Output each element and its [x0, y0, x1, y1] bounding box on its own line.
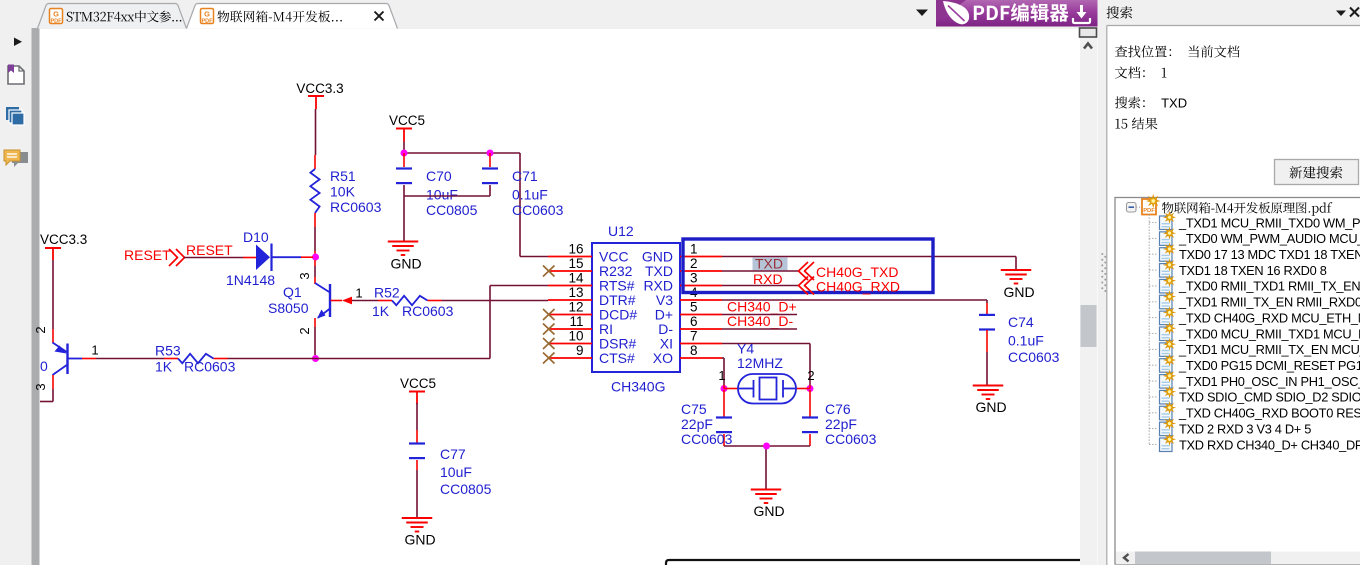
tree result 8 — [1149, 324, 1360, 342]
svg-text:TXD SDIO_CMD SDIO_D2 SDIO_: TXD SDIO_CMD SDIO_D2 SDIO_ — [1179, 390, 1360, 405]
svg-text:GND: GND — [390, 256, 421, 272]
tree connector line — [1148, 215, 1150, 445]
tabbar dropdown arrow — [916, 10, 928, 17]
wire RESET to D10 — [184, 257, 256, 259]
svg-text:R52: R52 — [374, 285, 400, 301]
wire VCC3.3 left to Q5 emitter — [33, 260, 53, 343]
svg-text:_TXD1 RMII_TX_EN RMII_RXD0: _TXD1 RMII_TX_EN RMII_RXD0 — [1178, 295, 1360, 310]
net label CH340_D- — [727, 313, 793, 329]
svg-text:VCC5: VCC5 — [400, 376, 436, 391]
port CH40G_TXD — [799, 262, 899, 280]
tab STM32F4xx (inactive) — [38, 4, 187, 29]
svg-text:0: 0 — [40, 358, 48, 374]
tree root item — [1127, 196, 1333, 216]
net label CH340_D+ — [727, 299, 797, 315]
svg-text:PDF: PDF — [202, 19, 214, 25]
tree result 9 — [1149, 340, 1360, 358]
svg-text:_TXD1 PH0_OSC_IN PH1_OSC_C: _TXD1 PH0_OSC_IN PH1_OSC_C — [1178, 374, 1360, 389]
node junction D10/R51/Q1 — [312, 254, 319, 261]
svg-text:1: 1 — [91, 343, 98, 358]
svg-text:1N4148: 1N4148 — [226, 272, 275, 288]
capacitor C70 10uF — [396, 153, 478, 218]
svg-text:8: 8 — [690, 343, 698, 358]
main vertical scrollbar — [1080, 28, 1097, 347]
tree result 1 — [1149, 213, 1360, 231]
tree result 4 — [1149, 260, 1326, 278]
svg-text:G: G — [53, 10, 59, 19]
svg-text:1K: 1K — [372, 303, 390, 319]
tab 物联网箱-M4开发板 (active) — [187, 4, 398, 29]
svg-text:RC0603: RC0603 — [402, 303, 454, 319]
wire U12 GND to ground symbol — [722, 257, 1016, 264]
ground under C74 — [973, 378, 1007, 415]
svg-text:_TXD CH40G_RXD MCU_ETH_MD: _TXD CH40G_RXD MCU_ETH_MD — [1178, 310, 1360, 325]
svg-text:1: 1 — [355, 286, 362, 301]
tree result 11 — [1149, 371, 1360, 389]
results tree box — [1115, 198, 1360, 565]
power VCC5 top — [389, 113, 425, 142]
svg-text:3: 3 — [297, 272, 312, 279]
svg-text:CH340_D-: CH340_D- — [727, 313, 793, 329]
svg-text:C71: C71 — [512, 168, 538, 184]
pin 1 U12-GND — [642, 242, 722, 265]
sidebar expand arrow — [14, 38, 22, 47]
panel splitter dots — [1101, 253, 1106, 292]
svg-text:10uF: 10uF — [426, 187, 458, 203]
svg-text:22pF: 22pF — [825, 416, 857, 432]
ground right of box — [1001, 263, 1035, 300]
PDF editor banner — [936, 0, 1098, 27]
svg-text:2: 2 — [297, 327, 312, 334]
svg-text:7: 7 — [690, 329, 698, 344]
svg-text:C75: C75 — [681, 401, 707, 417]
svg-text:TXD: TXD — [1161, 96, 1187, 111]
resistor R51 — [310, 155, 381, 227]
wire U12 V3 to C74 — [722, 300, 987, 303]
svg-text:2: 2 — [690, 256, 698, 271]
svg-text:10: 10 — [568, 329, 583, 344]
svg-text:R51: R51 — [330, 168, 356, 184]
svg-text:0.1uF: 0.1uF — [512, 187, 548, 203]
svg-text:TXD: TXD — [755, 256, 783, 272]
svg-text:G: G — [204, 10, 210, 19]
svg-text:CH40G_RXD: CH40G_RXD — [816, 279, 900, 295]
pin 4 U12-V3 — [656, 285, 722, 308]
wire U12 XI to crystal pin2 — [722, 344, 810, 386]
wire crystal caps to GND — [724, 446, 810, 481]
svg-text:22pF: 22pF — [681, 416, 713, 432]
title block border — [666, 560, 1080, 565]
svg-text:_TXD0 PG15 DCMI_RESET PG14: _TXD0 PG15 DCMI_RESET PG14 — [1178, 358, 1360, 373]
no-connect mark — [543, 266, 555, 277]
pin 14 U12-RTS# — [548, 271, 635, 294]
new search button — [1275, 160, 1359, 185]
tree horizontal scrollbar — [1116, 552, 1360, 565]
tree result 5 — [1149, 276, 1360, 294]
search panel header — [1107, 6, 1359, 18]
svg-text:GND: GND — [753, 503, 784, 519]
svg-text:RESET: RESET — [186, 242, 233, 258]
sidebar comments icon — [4, 150, 28, 167]
transistor Q1 S8050 — [268, 283, 363, 319]
pin 9 U12-CTS# — [548, 343, 635, 366]
pin 11 U12-RI — [548, 314, 613, 337]
svg-text:VCC3.3: VCC3.3 — [40, 232, 87, 247]
svg-text:10K: 10K — [330, 184, 356, 200]
svg-text:CC0603: CC0603 — [512, 202, 564, 218]
search info text — [1115, 45, 1240, 129]
tree result 12 — [1149, 387, 1360, 405]
node junction Q1/R53 net — [312, 355, 319, 362]
capacitor C74 0.1uF — [979, 303, 1060, 378]
capacitor C77 10uF — [409, 444, 492, 511]
pin 13 U12-DTR# — [548, 285, 636, 308]
svg-text:1: 1 — [690, 242, 698, 257]
svg-text:10uF: 10uF — [440, 464, 472, 480]
pin 16 U12-VCC — [548, 242, 629, 265]
pin 6 U12-D- — [658, 314, 722, 337]
svg-text:_TXD0 RMII_TXD1 RMII_TX_EN: _TXD0 RMII_TXD1 RMII_TX_EN — [1178, 279, 1360, 294]
wire VCC5 node — [404, 142, 548, 257]
pin 3 U12-RXD — [643, 271, 722, 294]
svg-text:11: 11 — [569, 314, 583, 329]
svg-text:CC0805: CC0805 — [440, 481, 492, 497]
svg-text:D10: D10 — [243, 229, 269, 245]
svg-text:C70: C70 — [426, 168, 452, 184]
node junction caps GND — [763, 443, 770, 450]
capacitor C75 22pF — [681, 390, 733, 447]
wire R53 net to U12 RTS# — [96, 286, 548, 359]
no-connect mark — [543, 338, 555, 349]
wire U12 D+ — [722, 314, 797, 316]
wire Q5 collector down — [33, 375, 53, 402]
wire U12 D- — [722, 328, 797, 330]
pin 5 U12-D+ — [655, 300, 722, 323]
svg-text:PDF: PDF — [51, 19, 63, 25]
svg-text:3: 3 — [690, 271, 698, 286]
tree result 6 — [1149, 292, 1360, 310]
wire R51 to node — [314, 227, 316, 257]
tree result 14 — [1149, 419, 1311, 437]
svg-text:CC0603: CC0603 — [1008, 349, 1060, 365]
svg-text:1K: 1K — [155, 359, 173, 375]
svg-text:2: 2 — [33, 326, 48, 333]
ground under C70 — [388, 231, 422, 272]
svg-text:TXD 2 RXD 3 V3 4 D+ 5: TXD 2 RXD 3 V3 4 D+ 5 — [1179, 421, 1311, 436]
port RESET — [124, 247, 185, 266]
svg-text:6: 6 — [690, 314, 698, 329]
svg-text:R53: R53 — [155, 343, 181, 359]
IC U12 CH340G — [592, 223, 680, 395]
pin 7 U12-XI — [660, 329, 722, 352]
capacitor C71 0.1uF — [482, 153, 564, 218]
svg-text:VCC3.3: VCC3.3 — [296, 81, 343, 96]
svg-text:CC0603: CC0603 — [681, 431, 733, 447]
tree result 3 — [1149, 244, 1360, 262]
pin 10 U12-DSR# — [548, 329, 637, 352]
svg-text:12MHZ: 12MHZ — [737, 355, 783, 371]
net TXD highlighted text — [753, 256, 788, 272]
svg-text:CC0805: CC0805 — [426, 202, 478, 218]
wire VCC3.3 to R51 — [315, 109, 317, 155]
svg-text:15: 15 — [568, 256, 583, 271]
svg-text:C76: C76 — [825, 401, 851, 417]
svg-text:RC0603: RC0603 — [184, 359, 236, 375]
tree result 2 — [1149, 229, 1360, 247]
svg-text:2: 2 — [807, 368, 814, 383]
svg-text:9: 9 — [576, 343, 584, 358]
wire U12 XO to crystal pin1 — [722, 358, 724, 385]
svg-text:_TXD1 MCU_RMII_TX_EN MCU_R: _TXD1 MCU_RMII_TX_EN MCU_R — [1178, 342, 1360, 357]
svg-text:Q1: Q1 — [283, 284, 302, 300]
svg-text:GND: GND — [404, 532, 435, 548]
node junction VCC5/C70 — [401, 150, 408, 157]
svg-text:0.1uF: 0.1uF — [1008, 333, 1044, 349]
svg-text:_TXD0 MCU_RMII_TXD1 MCU_RM: _TXD0 MCU_RMII_TXD1 MCU_RM — [1178, 326, 1360, 341]
svg-text:14: 14 — [568, 271, 584, 286]
wire node to Q1 collector — [297, 260, 315, 284]
svg-text:3: 3 — [33, 383, 48, 390]
node junction VCC5/C71 — [487, 150, 494, 157]
transistor Q5 S8550 (cut at page edge) — [40, 343, 99, 376]
wire VCC5 to C77 — [416, 403, 418, 443]
tree result 13 — [1149, 403, 1360, 421]
sidebar pages icon — [8, 65, 24, 85]
no-connect mark — [543, 309, 555, 320]
wire U12 RXD — [722, 285, 798, 287]
svg-text:TXD0 17 13 MDC TXD1 18 TXEN: TXD0 17 13 MDC TXD1 18 TXEN — [1179, 247, 1360, 262]
power VCC3.3 left — [40, 232, 87, 260]
svg-text:TXD1 18 TXEN 16 RXD0 8: TXD1 18 TXEN 16 RXD0 8 — [1179, 263, 1327, 278]
svg-text:_TXD CH40G_RXD BOOT0 RESET: _TXD CH40G_RXD BOOT0 RESET — [1178, 406, 1360, 421]
svg-text:RC0603: RC0603 — [330, 199, 382, 215]
svg-text:_TXD0 WM_PWM_AUDIO MCU_E: _TXD0 WM_PWM_AUDIO MCU_E — [1178, 231, 1360, 246]
svg-text:12: 12 — [568, 300, 583, 315]
no-connect mark — [543, 324, 555, 335]
wire U12 TXD — [722, 270, 798, 272]
svg-text:TXD RXD CH340_D+ CH340_DRE: TXD RXD CH340_D+ CH340_DRE — [1179, 437, 1360, 452]
svg-text:RESET: RESET — [124, 247, 171, 263]
resistor R53 — [155, 343, 236, 375]
diode D10 1N4148 — [226, 229, 313, 288]
svg-text:GND: GND — [1003, 284, 1034, 300]
svg-text:PDF: PDF — [1143, 208, 1155, 214]
svg-text:S8050: S8050 — [268, 300, 309, 316]
capacitor C76 22pF — [802, 390, 877, 447]
crystal Y4 12MHZ — [724, 341, 810, 404]
svg-text:RXD: RXD — [753, 271, 783, 287]
search highlight box — [683, 239, 933, 293]
node junction crystal pin1 — [718, 368, 727, 392]
svg-text:1: 1 — [718, 368, 725, 383]
svg-text:CH340G: CH340G — [611, 379, 665, 395]
pin 15 U12-R232 — [548, 256, 633, 279]
tree result 15 — [1149, 435, 1360, 453]
wire Q1 emitter to node — [297, 318, 315, 355]
svg-text:GND: GND — [975, 399, 1006, 415]
wire R52 to U12 DTR# — [442, 300, 549, 302]
port CH40G_RXD — [799, 277, 901, 295]
ground under C77 — [402, 510, 436, 548]
sidebar layers icon — [6, 107, 24, 125]
resistor R52 — [352, 285, 454, 320]
svg-text:16: 16 — [568, 242, 583, 257]
net label RXD — [753, 271, 783, 287]
no-connect mark — [543, 353, 555, 364]
node junction crystal pin2 — [807, 368, 815, 392]
svg-text:5: 5 — [690, 300, 698, 315]
tree result 10 — [1149, 355, 1360, 373]
ground under crystal — [751, 481, 785, 519]
svg-text:XO: XO — [653, 350, 673, 366]
svg-text:C77: C77 — [440, 446, 466, 462]
svg-text:CTS#: CTS# — [599, 350, 635, 366]
wire C70/C71 bottoms to GND — [404, 196, 490, 231]
svg-text:CC0603: CC0603 — [825, 431, 877, 447]
svg-text:_TXD1 MCU_RMII_TXD0 WM_PW: _TXD1 MCU_RMII_TXD0 WM_PW — [1178, 215, 1360, 230]
power VCC3.3 top — [296, 81, 343, 109]
power VCC5 bottom — [400, 376, 436, 404]
svg-text:13: 13 — [568, 285, 583, 300]
pin 2 U12-TXD — [645, 256, 722, 279]
svg-text:VCC5: VCC5 — [389, 113, 425, 128]
svg-text:C74: C74 — [1008, 314, 1034, 330]
svg-text:U12: U12 — [608, 223, 634, 239]
net label RESET — [186, 242, 233, 258]
tree result 7 — [1149, 308, 1360, 326]
pin 8 U12-XO — [653, 343, 722, 366]
pin 12 U12-DCD# — [548, 300, 637, 323]
